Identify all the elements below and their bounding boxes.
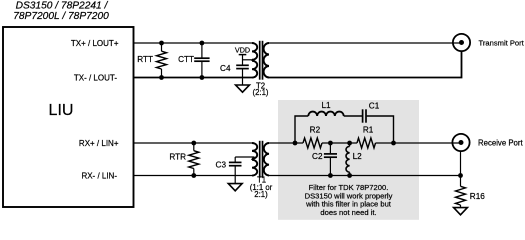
label C3: [216, 161, 227, 170]
junction L2 bottom on RX-: [347, 173, 352, 178]
pin label RX+ / LIN+: [79, 139, 119, 148]
note text line 2: [305, 191, 393, 200]
junction C2 bottom on RX-: [328, 173, 333, 178]
wire Receive Port shield down to RX- node: [460, 151, 462, 175]
svg-text:CTT: CTT: [178, 55, 194, 64]
wire TX- net from LIU to transformer T2 primary: [134, 77, 253, 79]
connector Transmit Port: [453, 34, 470, 51]
transformer T2 secondary winding: [264, 43, 269, 78]
svg-text:C3: C3: [216, 161, 227, 170]
svg-text:L2: L2: [353, 152, 363, 161]
capacitor C2: [324, 143, 337, 176]
junction RTT top on TX+: [159, 41, 164, 46]
junction C2 top on RX+: [328, 141, 333, 146]
label L1: [321, 101, 331, 110]
label T2 ratio (2:1): [252, 88, 268, 97]
junction RTT bottom on TX-: [159, 75, 164, 80]
label Receive Port: [478, 138, 523, 147]
label T1: [257, 175, 266, 184]
label T2: [256, 82, 265, 91]
wire T2 center tap: [243, 59, 255, 61]
wire TX- net from T2 secondary to Transmit Port shield: [269, 51, 462, 77]
label device part numbers line 1: [16, 1, 109, 12]
capacitor C1: [363, 109, 366, 122]
wire L1 to C1: [344, 115, 362, 117]
wire filter top branch right leg: [367, 116, 394, 143]
wire TX+ net from T2 secondary to Transmit Port center pin: [269, 42, 462, 44]
resistor R2: [303, 138, 322, 148]
svg-text:L1: L1: [321, 101, 331, 110]
wire VDD rail down to C4 and T2 center tap: [242, 55, 244, 65]
power VDD symbol: [235, 46, 250, 55]
transformer T2 primary winding: [252, 43, 257, 78]
note text line 4: [320, 208, 376, 217]
svg-text:2:1): 2:1): [254, 190, 268, 199]
transformer T1 core: [260, 141, 263, 178]
resistor RTR: [189, 143, 199, 176]
svg-text:does not need it.: does not need it.: [320, 208, 376, 217]
wire RX+ net T1 secondary through filter to Receive Port: [269, 142, 461, 144]
IC LIU box: [3, 27, 134, 207]
wire TX+ net from LIU to transformer T2 primary: [134, 42, 253, 44]
label R1: [363, 125, 374, 134]
label C2: [312, 152, 323, 161]
label device part numbers line 2: [13, 11, 109, 22]
svg-text:R1: R1: [363, 125, 374, 134]
label R16: [470, 192, 485, 201]
label C4: [220, 64, 231, 73]
transformer T2 core: [260, 41, 263, 80]
wire RX- net T1 secondary to R16 node: [269, 175, 461, 177]
ground below C4: [236, 85, 250, 92]
svg-text:C4: C4: [220, 64, 231, 73]
label RTT: [137, 55, 153, 64]
ground below R16: [454, 208, 468, 215]
capacitor C3: [229, 162, 242, 183]
filter shading box: [278, 100, 419, 220]
label T1 ratio (1:1 or: [250, 183, 273, 192]
transformer T1 primary winding: [252, 143, 257, 176]
transformer T1 secondary winding: [264, 143, 269, 175]
svg-text:TX- / LOUT-: TX- / LOUT-: [74, 73, 117, 82]
note text line 1: [309, 183, 389, 192]
svg-text:VDD: VDD: [235, 46, 250, 55]
inductor L1: [308, 112, 343, 116]
svg-text:Receive Port: Receive Port: [478, 138, 523, 147]
ground below C3: [228, 184, 242, 191]
svg-text:Transmit Port: Transmit Port: [479, 38, 525, 47]
svg-text:TX+ / LOUT+: TX+ / LOUT+: [71, 39, 119, 48]
svg-text:R16: R16: [470, 192, 485, 201]
junction CTT bottom on TX-: [200, 75, 205, 80]
label CTT: [178, 55, 194, 64]
label R2: [310, 125, 321, 134]
svg-text:C2: C2: [312, 152, 323, 161]
wire RX+ net from LIU to transformer T1 primary: [134, 142, 253, 144]
pin label TX- / LOUT-: [74, 73, 117, 82]
junction filter right node on RX+: [391, 141, 396, 146]
resistor R16: [456, 176, 466, 208]
label L2: [353, 152, 363, 161]
svg-text:RX+ / LIN+: RX+ / LIN+: [79, 139, 119, 148]
label T1 ratio 2:1): [254, 190, 268, 199]
svg-text:LIU: LIU: [49, 102, 74, 119]
svg-text:78P7200L / 78P7200: 78P7200L / 78P7200: [13, 11, 109, 22]
junction RTR bottom on RX-: [191, 173, 196, 178]
resistor RTT: [157, 43, 167, 78]
svg-text:(2:1): (2:1): [252, 88, 268, 97]
junction RTR top on RX+: [191, 141, 196, 146]
svg-text:RX- / LIN-: RX- / LIN-: [81, 171, 117, 180]
inductor L2: [346, 143, 350, 176]
svg-text:RTR: RTR: [169, 153, 186, 162]
resistor R1: [357, 138, 376, 148]
label C1: [369, 102, 380, 111]
pin label RX- / LIN-: [81, 171, 117, 180]
junction filter left node on RX+: [293, 141, 298, 146]
capacitor CTT: [194, 43, 209, 78]
note text line 3: [305, 200, 392, 209]
junction R16 node on RX-: [458, 173, 463, 178]
pin label TX+ / LOUT+: [71, 39, 119, 48]
svg-text:R2: R2: [310, 125, 321, 134]
connector Receive Port: [452, 134, 469, 151]
junction CTT top on TX+: [200, 41, 205, 46]
capacitor C4: [236, 65, 249, 85]
svg-text:RTT: RTT: [137, 55, 153, 64]
label LIU: [49, 102, 74, 119]
junction L2 top on RX+: [347, 141, 352, 146]
wire filter top branch left leg: [295, 116, 308, 143]
label Transmit Port: [479, 38, 525, 47]
wire RX- net from LIU to transformer T1 primary: [134, 175, 253, 177]
label RTR: [169, 153, 186, 162]
wire T1 center tap to C3: [235, 157, 254, 162]
svg-text:C1: C1: [369, 102, 380, 111]
